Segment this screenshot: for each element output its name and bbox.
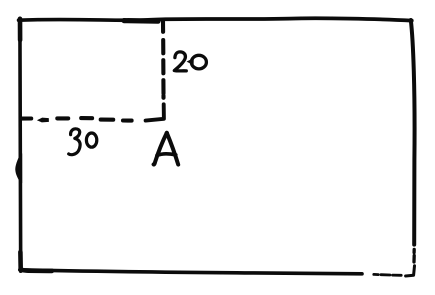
- rectangle bottom edge dashes near right corner: [374, 273, 401, 277]
- rectangle bottom-right corner hook: [406, 266, 415, 276]
- rectangle left edge: [15, 19, 22, 272]
- label 30: digit 3: [69, 129, 80, 155]
- rectangle top edge: [19, 18, 412, 21]
- corner hook where dashed lines meet above A: [146, 104, 164, 120]
- point label A: [154, 131, 179, 164]
- horizontal dashed line (length 30 from left edge to A): [21, 118, 132, 123]
- vertical dashed line (length 20 from top edge to A): [161, 22, 166, 98]
- label 20: digit 0: [187, 55, 207, 69]
- rectangle right edge (solid part): [411, 20, 415, 245]
- rectangle right edge short dashes near bottom: [412, 249, 416, 262]
- label 20: digit 2: [174, 52, 186, 71]
- rectangle bottom edge (solid part): [20, 252, 362, 274]
- label 30: digit 0: [86, 133, 96, 147]
